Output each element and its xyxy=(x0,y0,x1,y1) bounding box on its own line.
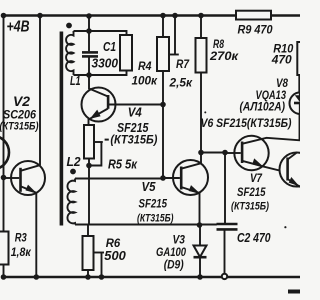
svg-text:(КТ315Б): (КТ315Б) xyxy=(231,201,269,213)
svg-text:SF215: SF215 xyxy=(117,120,149,135)
svg-text:R4: R4 xyxy=(138,59,152,73)
svg-text:(АЛ102А): (АЛ102А) xyxy=(240,102,286,114)
svg-text:C2 470: C2 470 xyxy=(237,231,271,245)
svg-text:2,5к: 2,5к xyxy=(169,76,193,90)
svg-text:5к: 5к xyxy=(125,158,138,172)
svg-text:R9 470: R9 470 xyxy=(238,23,273,37)
svg-text:500: 500 xyxy=(104,248,126,263)
svg-text:3300: 3300 xyxy=(92,57,119,71)
svg-text:SF215: SF215 xyxy=(237,185,266,199)
svg-text:L2: L2 xyxy=(67,154,82,169)
svg-text:270к: 270к xyxy=(209,49,239,63)
svg-text:1,8к: 1,8к xyxy=(11,245,32,259)
svg-text:(D9): (D9) xyxy=(164,258,184,272)
svg-text:+4В: +4В xyxy=(7,19,30,36)
svg-text:100к: 100к xyxy=(132,74,158,88)
svg-text:VQA13: VQA13 xyxy=(256,88,287,102)
svg-text:R7: R7 xyxy=(176,59,190,71)
svg-text:L1: L1 xyxy=(70,74,81,88)
svg-text:(КТ315Б): (КТ315Б) xyxy=(137,213,174,225)
svg-text:SC206: SC206 xyxy=(3,108,36,122)
svg-text:R5: R5 xyxy=(108,158,123,172)
svg-text:C1: C1 xyxy=(103,40,116,54)
svg-text:V7: V7 xyxy=(250,171,263,185)
svg-text:V6 SF215(КТ315Б): V6 SF215(КТ315Б) xyxy=(201,118,292,130)
svg-text:SF215: SF215 xyxy=(139,197,168,211)
svg-text:470: 470 xyxy=(271,53,292,67)
svg-text:R3: R3 xyxy=(15,231,27,245)
svg-text:V5: V5 xyxy=(142,180,157,194)
svg-text:(КТ315Б): (КТ315Б) xyxy=(0,121,39,133)
svg-text:(КТ315Б): (КТ315Б) xyxy=(110,135,157,147)
svg-text:V4: V4 xyxy=(128,105,143,120)
